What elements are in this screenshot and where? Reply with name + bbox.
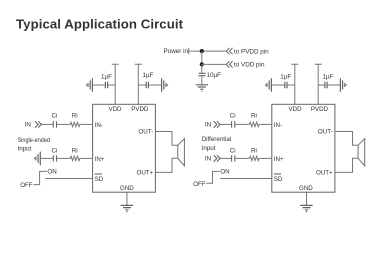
text Power in label (164, 48, 189, 55)
supply wire VDD U2 with terminal bar (291, 64, 298, 104)
pin label IN+ U1 (95, 156, 105, 163)
supply wire PVDD U2 with terminal bar (315, 64, 322, 104)
wire Ci to Ri (U2 row1) (235, 123, 250, 125)
svg-text:Ci: Ci (52, 113, 58, 120)
text IN label (U2 row1) (205, 122, 212, 129)
wire IN chevron to Ci (U2 row2) (220, 157, 232, 159)
svg-text:Input: Input (202, 145, 216, 152)
svg-text:1µF: 1µF (101, 73, 112, 80)
ground power section (196, 85, 208, 91)
svg-text:to VDD pin: to VDD pin (234, 62, 265, 69)
svg-text:Differential: Differential (202, 136, 231, 143)
svg-text:Ci: Ci (230, 113, 236, 120)
svg-text:IN-: IN- (95, 122, 103, 129)
wire ground to Ci (U1 row2) (40, 157, 53, 159)
capacitor C 10µF (199, 64, 222, 84)
wire Ri to IN- pin (U1 row1) (80, 123, 93, 125)
supply wire PVDD U1 with terminal bar (135, 64, 142, 104)
ground (VDD bypass U2, rotated left) (266, 78, 272, 92)
wire junction to VDD chevron (202, 63, 226, 65)
wire switch to SD pin U2 (220, 178, 272, 180)
svg-text:Ri: Ri (251, 147, 257, 154)
speaker LS2 (358, 139, 365, 166)
wire switch to SD pin U1 (45, 178, 92, 180)
wire power-in to PVDD chevron (189, 50, 226, 52)
svg-text:Typical Application Circuit: Typical Application Circuit (16, 17, 184, 32)
title Typical Application Circuit (16, 17, 184, 32)
capacitor Ci (U1 row2) (52, 147, 58, 161)
svg-text:10µF: 10µF (207, 72, 222, 79)
svg-text:1µF: 1µF (280, 73, 291, 80)
svg-text:ON: ON (220, 169, 229, 176)
wire IN chevron to Ci (U1 row1) (41, 123, 53, 125)
svg-text:Ci: Ci (52, 147, 58, 154)
svg-text:IN+: IN+ (274, 156, 284, 163)
svg-text:1µF: 1µF (143, 72, 154, 79)
svg-text:PVDD: PVDD (311, 106, 329, 113)
pin label IN+ U2 (274, 156, 284, 163)
svg-text:Input: Input (18, 145, 32, 152)
ground (AC ground IN+ U1, rotated left) (34, 152, 40, 166)
wire Ci to Ri (U1 row2) (57, 157, 71, 159)
svg-text:VDD: VDD (108, 106, 122, 113)
wire Ri to IN+ pin (U1 row2) (80, 157, 93, 159)
svg-text:1µF: 1µF (323, 73, 334, 80)
ground (PVDD bypass U2, rotated right) (340, 78, 346, 92)
capacitor Ci (U1 row1) (52, 113, 58, 128)
wire Ci to Ri (U2 row2) (235, 157, 250, 159)
resistor Ri (U2 row2) (249, 147, 259, 160)
svg-text:IN+: IN+ (95, 156, 105, 163)
off-page connector to PVDD pin (226, 48, 232, 54)
node power-in terminal tick (188, 48, 190, 54)
off-page connector to VDD pin (226, 61, 232, 67)
junction node PVDD tap (200, 49, 204, 53)
switch SD U2 (ON/OFF) (193, 169, 229, 188)
ground (U2) (300, 205, 312, 211)
svg-text:VDD: VDD (289, 106, 303, 113)
pin label OUT- U1 (138, 129, 153, 136)
svg-text:Ci: Ci (230, 147, 236, 154)
pin label OUT+ U2 (316, 170, 333, 177)
ground (VDD bypass U1, rotated left) (87, 78, 93, 92)
wire Ri to IN- pin (U2 row1) (259, 123, 272, 125)
ground (PVDD bypass U1, rotated right) (162, 78, 168, 92)
junction node VDD tap (200, 62, 204, 66)
text IN label (U2 row2) (205, 156, 212, 163)
pin label PVDD U2 (311, 106, 329, 113)
svg-text:PVDD: PVDD (131, 106, 149, 113)
capacitor 1µF (VDD bypass U1) (92, 73, 115, 88)
svg-text:OUT+: OUT+ (137, 170, 154, 177)
text Single-ended Input (18, 137, 51, 152)
pin label VDD U1 (108, 106, 122, 113)
svg-text:Ri: Ri (251, 113, 257, 120)
pin label PVDD U1 (131, 106, 149, 113)
svg-text:Power in: Power in (164, 48, 189, 55)
svg-text:OUT+: OUT+ (316, 170, 333, 177)
wire OUT- U1 to speaker (155, 132, 177, 146)
input connector chevrons IN (U2 row2) (214, 155, 220, 161)
svg-text:GND: GND (120, 185, 134, 192)
svg-text:OFF: OFF (193, 181, 206, 188)
svg-text:GND: GND (299, 185, 313, 192)
wire junction down to VDD tap (201, 51, 203, 64)
text IN label (single-ended input) (25, 122, 32, 129)
pin label SD U1 with overline (95, 174, 104, 183)
svg-text:IN: IN (205, 156, 212, 163)
wire Ci to Ri (U1 row1) (57, 123, 71, 125)
pin label GND U2 (299, 185, 313, 192)
svg-text:Single-ended: Single-ended (18, 137, 51, 144)
wire OUT+ U1 to speaker (155, 158, 177, 172)
svg-text:OUT-: OUT- (318, 129, 333, 136)
svg-text:IN-: IN- (274, 122, 282, 129)
svg-text:Ri: Ri (72, 147, 78, 154)
svg-text:IN: IN (205, 122, 212, 129)
svg-text:SD: SD (274, 176, 283, 183)
svg-text:ON: ON (47, 169, 56, 176)
svg-text:OFF: OFF (20, 182, 33, 189)
wire IN chevron to Ci (U2 row1) (220, 123, 232, 125)
capacitor 1µF (PVDD bypass U2) (318, 73, 340, 88)
resistor Ri (U1 row1) (70, 113, 80, 127)
supply wire VDD U1 with terminal bar (112, 64, 119, 104)
resistor Ri (U2 row1) (249, 113, 259, 127)
capacitor 1µF (VDD bypass U2) (271, 73, 294, 88)
capacitor Ci (U2 row2) (230, 147, 236, 161)
resistor Ri (U1 row2) (70, 147, 80, 160)
svg-text:Ri: Ri (72, 113, 78, 120)
pin label SD U2 with overline (274, 174, 283, 183)
text to VDD pin (234, 62, 265, 69)
switch SD U1 (ON/OFF) (20, 169, 56, 189)
pin label OUT- U2 (318, 129, 333, 136)
pin label VDD U2 (289, 106, 303, 113)
pin label IN- U1 (95, 122, 103, 129)
text Differential Input (202, 136, 231, 152)
svg-text:IN: IN (25, 122, 32, 129)
pin label GND U1 (120, 185, 134, 192)
ground (U1) (121, 205, 133, 211)
IC U2 block (right, differential) (272, 104, 335, 192)
text to PVDD pin (234, 48, 269, 55)
wire Ri to IN+ pin (U2 row2) (259, 157, 272, 159)
pin label IN- U2 (274, 122, 282, 129)
speaker LS1 (178, 139, 185, 166)
input connector chevrons IN (U2 row1) (214, 121, 220, 127)
wire OUT- U2 to speaker (335, 132, 358, 146)
pin label OUT+ U1 (137, 170, 154, 177)
wire GND pin U1 (126, 192, 128, 205)
capacitor 1µF (PVDD bypass U1) (138, 72, 161, 88)
IC U1 block (left, single-ended) (93, 104, 156, 192)
input connector chevrons IN (U1 row1) (35, 121, 41, 127)
wire GND pin U2 (306, 192, 308, 205)
svg-text:SD: SD (95, 176, 104, 183)
capacitor Ci (U2 row1) (230, 113, 236, 128)
svg-text:to PVDD pin: to PVDD pin (234, 48, 269, 55)
svg-text:OUT-: OUT- (138, 129, 153, 136)
wire OUT+ U2 to speaker (335, 158, 358, 172)
